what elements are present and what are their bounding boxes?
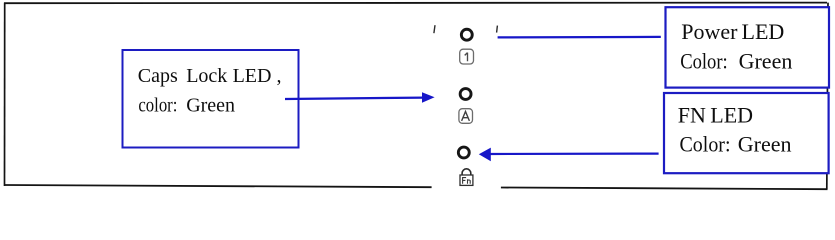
svg-text:FNLED: FNLED <box>678 103 753 128</box>
frame bottom border right segment <box>501 188 828 190</box>
frame top border <box>4 2 827 5</box>
key cap A <box>459 109 473 124</box>
key cap 1 <box>460 49 474 64</box>
svg-text:PowerLED: PowerLED <box>681 19 784 44</box>
svg-text:CapsLockLED,: CapsLockLED, <box>138 65 282 87</box>
power LED label box <box>666 7 830 87</box>
FN lock icon <box>460 169 473 186</box>
frame bottom border left segment <box>4 185 432 187</box>
arrowhead to FN LED <box>479 148 491 162</box>
FN LED circle <box>458 147 469 158</box>
power LED circle <box>461 29 472 40</box>
arrowhead to caps lock LED <box>422 92 435 103</box>
wire from FN box to FN LED <box>490 153 659 156</box>
arrow wire from caps lock box <box>285 98 424 99</box>
FN LED label box <box>664 93 829 173</box>
caps lock LED circle <box>460 89 471 100</box>
wire from power LED to power box <box>498 36 661 39</box>
tick mark left of power LED <box>434 25 435 33</box>
frame left border <box>4 3 6 186</box>
tick mark at start of power LED wire <box>496 26 499 33</box>
frame right border <box>827 3 828 190</box>
caps lock label box <box>123 50 299 148</box>
svg-text:color:Green: color:Green <box>138 94 235 116</box>
